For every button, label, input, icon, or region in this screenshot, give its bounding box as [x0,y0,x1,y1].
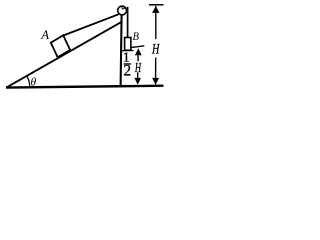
incline hypotenuse [6,22,121,87]
svg-text:H: H [151,41,160,57]
tick from block B bottom-right extending right [131,46,145,48]
block A [51,35,70,57]
H dimension up arrow [152,6,159,39]
svg-text:θ: θ [30,77,36,89]
rope from A to pulley [63,14,119,35]
label 1/2 fraction [123,51,131,80]
half-H dimension down arrow [134,72,141,84]
pulley U1 [118,6,127,15]
H dimension top tick [149,4,164,6]
H dimension down arrow [152,58,159,86]
svg-text:H: H [134,61,141,76]
ground line [6,86,164,88]
tick under block B [122,50,134,52]
svg-text:A: A [40,27,49,42]
incline vertical side [121,15,122,87]
half-H dimension up arrow [135,48,142,61]
angle arc [27,76,30,87]
block B [125,38,131,51]
svg-text:2: 2 [123,63,131,80]
pulley hub [122,7,124,9]
rope from pulley to B [127,7,129,38]
svg-text:B: B [133,29,140,43]
